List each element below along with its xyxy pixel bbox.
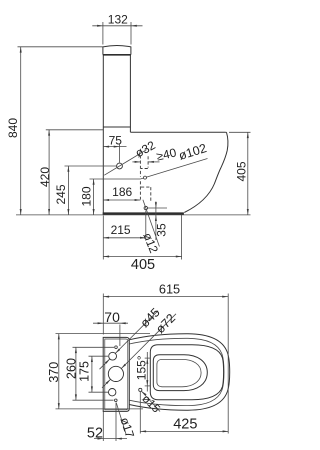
svg-text:75: 75 (109, 133, 123, 147)
leader line o45 (100, 311, 159, 370)
arrow ge40 left (135, 161, 141, 163)
small hole circle 3 (plan) (109, 389, 116, 396)
bowl top surface line (130, 131, 226, 133)
dimension 132 (92, 25, 142, 27)
dimension 615 (103, 296, 228, 298)
dimension 75 (103, 146, 126, 148)
bowl base thick line (103, 212, 184, 214)
svg-text:52: 52 (87, 425, 103, 441)
arrow ge40 right (148, 161, 154, 163)
PLAN VIEW (47, 282, 230, 442)
leader line for o102 (140, 159, 207, 180)
svg-text:215: 215 (111, 223, 131, 237)
dimension 405 right (229, 131, 251, 133)
svg-text:186: 186 (112, 185, 132, 199)
svg-text:155°: 155° (135, 355, 149, 380)
node circle on o102 leader (144, 176, 147, 179)
dimension 840 (18, 46, 103, 48)
svg-text:425: 425 (173, 417, 197, 433)
cistern tank inner rect (plan) (105, 339, 128, 410)
svg-text:420: 420 (38, 167, 52, 187)
arrow o45 upper (115, 349, 120, 354)
svg-text:370: 370 (47, 362, 61, 383)
svg-text:405: 405 (234, 161, 248, 181)
bowl opening inner (plan) (157, 359, 201, 386)
svg-text:840: 840 (6, 118, 20, 138)
arrow o72 upper (121, 364, 126, 369)
dimension 245 (65, 165, 117, 167)
seat hinge hole circle (139, 388, 142, 391)
cistern lid joint line (103, 54, 131, 56)
water inlet circle (117, 163, 123, 169)
arrow o15 (141, 391, 146, 396)
seat ring outer (plan) (150, 345, 223, 400)
svg-text:245: 245 (54, 184, 68, 204)
bowl rim inner line (plan) (129, 338, 224, 405)
bowl opening outer (plan) (153, 355, 207, 391)
svg-text:615: 615 (159, 282, 180, 297)
leader line for o32 (104, 150, 146, 176)
outlet hidden rect (lower dashed) (141, 187, 151, 202)
cistern lid (side view) (103, 46, 131, 55)
svg-text:35: 35 (155, 223, 169, 237)
o15 leader line (141, 391, 160, 411)
bowl front curve (184, 132, 228, 212)
tank bottom joint line (103, 126, 130, 128)
ELEVATION VIEW (6, 13, 250, 273)
svg-text:405: 405 (131, 257, 155, 273)
dimension 370 (56, 333, 151, 335)
dimension 180 (90, 178, 141, 180)
big hole circle 2 (plan) (108, 366, 123, 381)
tiny fixing hole A (115, 346, 118, 349)
svg-text:132: 132 (108, 13, 128, 27)
dimension 175 (89, 355, 109, 357)
svg-text:180: 180 (80, 186, 94, 206)
tank right edge (129, 55, 131, 133)
leader line o72 (102, 314, 176, 388)
o12 leader line (143, 200, 160, 247)
dimension 260 (73, 346, 115, 348)
arrow o72 lower (106, 379, 111, 384)
small hole circle 1 (plan) (109, 352, 117, 360)
tiny fixing hole B (115, 399, 118, 402)
svg-text:260: 260 (64, 358, 78, 379)
svg-text:70: 70 (104, 309, 120, 325)
o17 leader line (116, 403, 126, 434)
supply pipe hidden lines (o32) (140, 155, 148, 199)
arrow o45 lower (105, 359, 110, 364)
dimension 420 (46, 129, 103, 131)
fixing hole circle at base (144, 206, 147, 209)
toilet silhouette fill (side view) (103, 46, 228, 213)
dimension &ge;40 line (132, 161, 140, 163)
dimension 425 (140, 430, 228, 432)
dimension 35 ext line (148, 207, 167, 209)
cistern tank outer rect (plan) (103, 337, 129, 411)
dimension 70 (93, 322, 128, 324)
dimension 52 (94, 438, 127, 440)
dimension 155deg (146, 352, 148, 392)
dimension 405 bottom (103, 256, 181, 258)
floor extension line (16, 214, 251, 216)
bowl outer outline (plan) (129, 334, 230, 411)
dimension 186 (103, 199, 140, 201)
dimension 215 (103, 237, 146, 239)
dimension 35 (155, 202, 157, 241)
svg-text:175: 175 (78, 361, 92, 382)
tank/pedestal left edge (102, 55, 104, 215)
